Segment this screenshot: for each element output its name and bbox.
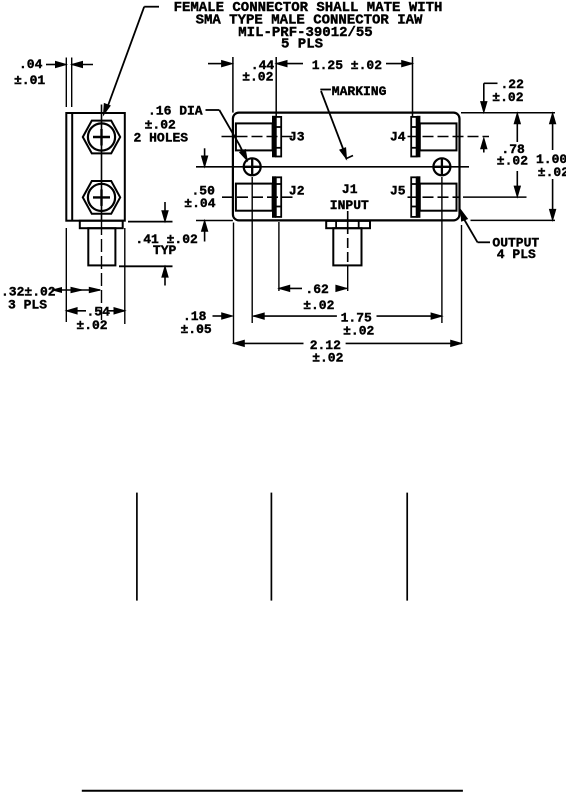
svg-text:3 PLS: 3 PLS: [8, 298, 47, 313]
svg-text:±.04: ±.04: [184, 196, 215, 211]
svg-text:±.02: ±.02: [76, 318, 107, 333]
svg-text:±.05: ±.05: [181, 322, 212, 337]
svg-text:±.02: ±.02: [538, 165, 566, 180]
svg-text:J2: J2: [289, 184, 305, 199]
svg-text:4 PLS: 4 PLS: [497, 247, 536, 262]
svg-text:±.02: ±.02: [343, 323, 374, 338]
svg-text:J5: J5: [390, 184, 406, 199]
svg-text:±.02: ±.02: [492, 90, 523, 105]
svg-text:.16 DIA: .16 DIA: [148, 103, 203, 118]
svg-text:2 HOLES: 2 HOLES: [134, 131, 189, 146]
svg-text:±.02: ±.02: [303, 298, 334, 313]
svg-text:TYP: TYP: [153, 243, 177, 258]
svg-text:.62: .62: [305, 282, 329, 297]
svg-text:MARKING: MARKING: [332, 84, 387, 99]
svg-text:.04: .04: [19, 57, 43, 72]
svg-text:±.02: ±.02: [497, 154, 528, 169]
svg-text:INPUT: INPUT: [330, 198, 369, 213]
svg-text:±.01: ±.01: [14, 73, 45, 88]
svg-text:1.25 ±.02: 1.25 ±.02: [312, 58, 382, 73]
svg-text:J3: J3: [289, 130, 305, 145]
svg-text:J4: J4: [390, 130, 406, 145]
svg-text:±.02: ±.02: [312, 351, 343, 366]
svg-text:J1: J1: [342, 182, 358, 197]
svg-text:±.02: ±.02: [242, 69, 273, 84]
svg-text:5 PLS: 5 PLS: [281, 37, 323, 53]
